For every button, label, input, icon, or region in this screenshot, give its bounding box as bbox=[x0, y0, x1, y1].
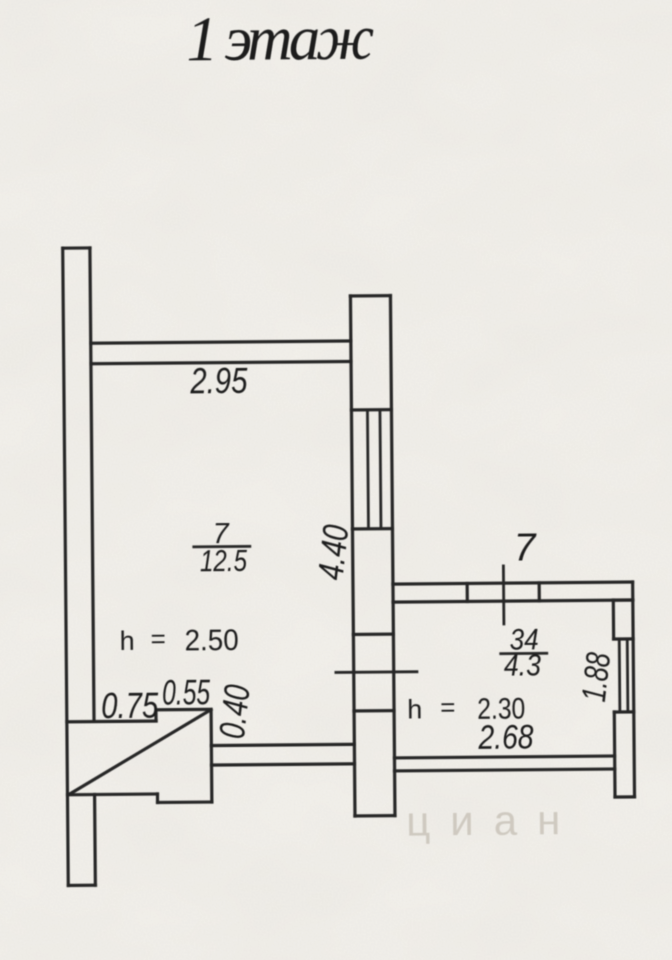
svg-text:7: 7 bbox=[514, 526, 537, 569]
leader line for room 34 number bbox=[502, 566, 505, 624]
svg-text:h: h bbox=[407, 694, 422, 724]
svg-text:12.5: 12.5 bbox=[200, 543, 248, 578]
window W2 in right wall bbox=[614, 639, 634, 712]
svg-text:4.40: 4.40 bbox=[309, 523, 356, 582]
svg-text:2.95: 2.95 bbox=[189, 360, 248, 402]
central wall bbox=[350, 296, 395, 816]
bottom wall of room 34 bbox=[394, 756, 614, 771]
room 34 label: 34 over 4.3 bbox=[501, 623, 548, 682]
right wall bbox=[613, 582, 634, 797]
svg-text:1 этаж: 1 этаж bbox=[186, 3, 375, 75]
svg-text:0.55: 0.55 bbox=[162, 673, 211, 712]
svg-text:2.50: 2.50 bbox=[184, 624, 238, 657]
svg-text:циан: циан bbox=[406, 796, 580, 845]
top wall of room 7 bbox=[91, 341, 351, 364]
svg-text:0.75: 0.75 bbox=[101, 685, 159, 727]
svg-text:=: = bbox=[150, 624, 165, 654]
svg-text:0.40: 0.40 bbox=[211, 683, 258, 741]
passage walls to central wall bbox=[211, 744, 354, 765]
stair / entry steps bbox=[67, 709, 212, 803]
svg-text:1.88: 1.88 bbox=[575, 651, 618, 704]
svg-text:h: h bbox=[120, 626, 135, 656]
svg-text:2.68: 2.68 bbox=[477, 718, 533, 756]
top wall of room 34 bbox=[393, 582, 633, 602]
svg-text:=: = bbox=[440, 692, 455, 722]
window W1 in central wall bbox=[367, 410, 381, 529]
height note h = 2.30 bbox=[407, 691, 525, 726]
svg-text:4.3: 4.3 bbox=[504, 647, 541, 682]
left wall bbox=[63, 248, 96, 886]
height note h = 2.50 bbox=[119, 623, 238, 658]
leader line across central wall bbox=[336, 670, 417, 674]
room 7 label: 7 over 12.5 bbox=[194, 518, 251, 578]
